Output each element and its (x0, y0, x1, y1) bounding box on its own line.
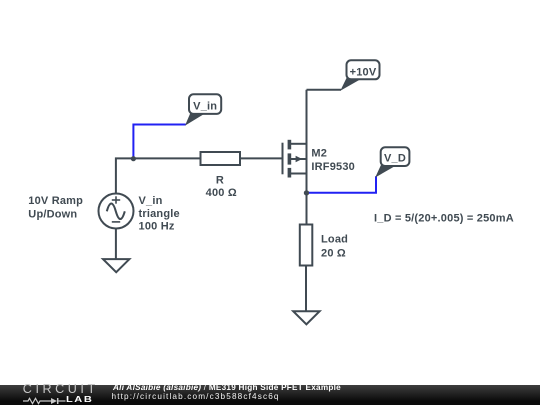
svg-text:IRF9530: IRF9530 (311, 161, 355, 173)
svg-text:V_in: V_in (139, 195, 163, 207)
node B: drain junction dot (304, 190, 309, 195)
svg-text:V_D: V_D (384, 153, 406, 165)
svg-text:20 Ω: 20 Ω (321, 248, 346, 260)
svg-text:Up/Down: Up/Down (28, 208, 77, 220)
wire: load bottom to ground (305, 266, 307, 312)
svg-text:I_D = 5/(20+.005) = 250mA: I_D = 5/(20+.005) = 250mA (374, 212, 514, 224)
ground (left) (103, 259, 129, 272)
svg-text:V_in: V_in (193, 101, 217, 113)
svg-text:M2: M2 (311, 148, 327, 160)
net flag V_D (375, 147, 409, 177)
transistor M2 IRF9530 (PMOS) (283, 140, 307, 178)
svg-text:triangle: triangle (139, 208, 180, 220)
power flag +10V (340, 60, 379, 91)
svg-text:R: R (216, 174, 224, 186)
wire: blue net from node A to V_in flag (133, 125, 185, 159)
wire: resistor R right lead to gate (240, 157, 283, 159)
wire: main input net V1 top to gate of M2 (116, 158, 201, 193)
resistor Load (vertical) (300, 225, 313, 266)
wire: V1 bottom to ground (115, 229, 117, 260)
wire: horizontal to +10V flag (307, 89, 342, 91)
wire: blue net from drain node to V_D flag (307, 176, 377, 192)
svg-text:Load: Load (321, 234, 348, 246)
voltage source V1 (V_in triangle) (99, 194, 134, 229)
svg-text:400 Ω: 400 Ω (206, 187, 237, 199)
wire: +10V rail to M2 source, down to load (306, 90, 308, 225)
svg-text:+10V: +10V (350, 67, 377, 79)
ground (right) (293, 311, 319, 324)
svg-text:10V Ramp: 10V Ramp (28, 195, 83, 207)
svg-text:100 Hz: 100 Hz (139, 221, 175, 233)
resistor R (201, 152, 241, 165)
node A: junction dot on input net (131, 156, 136, 161)
logo squiggle: resistor zigzag + diode (23, 397, 67, 405)
net flag V_in (185, 94, 221, 125)
